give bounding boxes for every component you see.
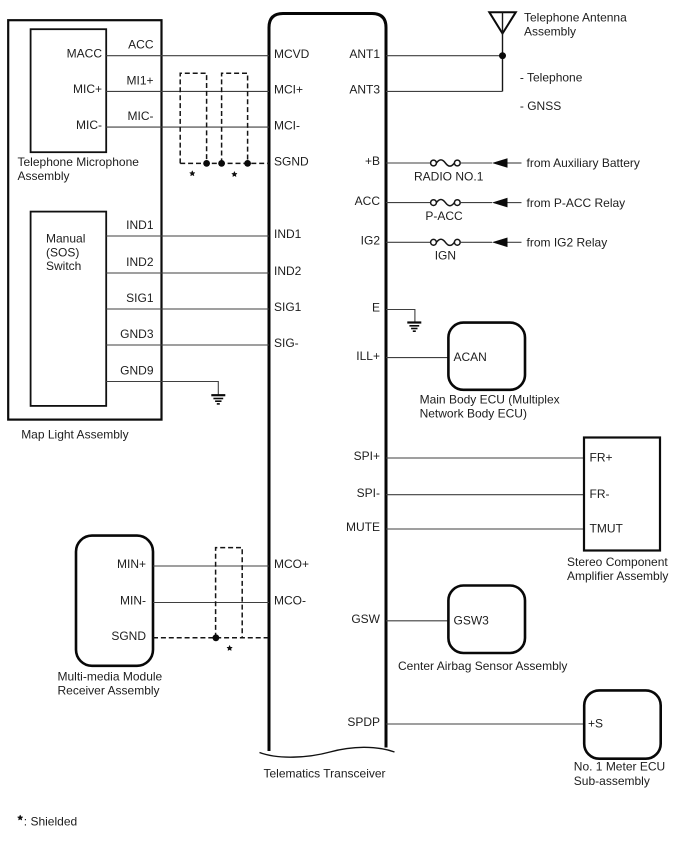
wire IND2 (106, 272, 269, 274)
svg-text:GSW3: GSW3 (454, 613, 490, 627)
svg-text:ACC: ACC (355, 194, 381, 208)
svg-text:Multi-media Module: Multi-media Module (58, 670, 163, 684)
svg-text:Center Airbag Sensor Assembly: Center Airbag Sensor Assembly (398, 659, 567, 673)
svg-text:Manual: Manual (46, 232, 85, 246)
ground E (407, 323, 421, 332)
svg-text:IG2: IG2 (361, 234, 381, 248)
ground GND9 (211, 395, 225, 404)
note *: Shielded (18, 815, 77, 829)
wire ACC (MACC to MCVD) (106, 55, 269, 57)
svg-text:SIG1: SIG1 (274, 300, 302, 314)
wire SPI- (386, 494, 584, 496)
wire ACC (386, 202, 431, 204)
wire MIN- to MCO- (153, 602, 269, 604)
wire GND3 (to SIG-) (106, 344, 269, 346)
svg-text:MIC-: MIC- (76, 118, 102, 132)
svg-text:SPDP: SPDP (347, 715, 380, 729)
wire arrow tail (+B) (508, 162, 522, 164)
svg-text:SIG-: SIG- (274, 336, 299, 350)
svg-text:Telephone Microphone: Telephone Microphone (18, 155, 140, 169)
wire arrow tail (IG2) (508, 241, 522, 243)
shield box S3 around MCO wires (216, 548, 243, 638)
svg-text:RADIO NO.1: RADIO NO.1 (414, 169, 484, 183)
svg-text:Map Light Assembly: Map Light Assembly (21, 428, 128, 442)
box Stereo Component Amplifier Assembly (584, 438, 660, 551)
wire E to ground (386, 310, 415, 323)
wire IND1 (106, 235, 269, 237)
arrow from P-ACC Relay (492, 198, 508, 208)
label Stereo Component Amplifier Assembly (567, 555, 668, 583)
wire MUTE (386, 528, 584, 530)
svg-text:from Auxiliary Battery: from Auxiliary Battery (527, 156, 640, 170)
svg-text:ANT1: ANT1 (349, 47, 380, 61)
svg-text:IND2: IND2 (126, 255, 154, 269)
box Manual (SOS) Switch (31, 212, 107, 406)
wire MI1+ (MIC+ to MCI+) (106, 90, 269, 92)
svg-text:- Telephone: - Telephone (520, 70, 583, 84)
svg-text:ILL+: ILL+ (356, 349, 380, 363)
svg-text:MIN+: MIN+ (117, 557, 146, 571)
svg-text:Receiver Assembly: Receiver Assembly (58, 683, 160, 697)
label Multi-media Module Receiver Assembly (58, 670, 163, 698)
svg-text:Main Body ECU (Multiplex: Main Body ECU (Multiplex (420, 393, 560, 407)
svg-text:Sub-assembly: Sub-assembly (574, 774, 650, 788)
box Main Body ECU (ACAN) (448, 323, 525, 390)
fuse RADIO NO.1 (431, 160, 461, 166)
svg-text:MI1+: MI1+ (126, 73, 153, 87)
shield box S2 around MI1+/MIC- wires (222, 73, 248, 163)
asterisk shield S2 (232, 172, 237, 177)
wire SGND shield drain (dashed) (180, 162, 269, 164)
svg-text:GND3: GND3 (120, 327, 154, 341)
svg-text:Telematics Transceiver: Telematics Transceiver (264, 767, 386, 781)
wire ANT1 (386, 55, 503, 57)
svg-text:IND2: IND2 (274, 264, 302, 278)
wire ILL+ to ACAN (386, 357, 448, 359)
svg-text:+B: +B (365, 154, 380, 168)
svg-text:from P-ACC Relay: from P-ACC Relay (527, 196, 626, 210)
connector U1 Telematics Transceiver outline (269, 14, 386, 752)
svg-text:MACC: MACC (67, 47, 103, 61)
svg-text:Stereo Component: Stereo Component (567, 555, 668, 569)
junction dot ANT1/antenna (499, 52, 506, 59)
wavy break line at U1 bottom (260, 747, 395, 757)
wire +B (386, 162, 431, 164)
wire fuse to arrow (ACC) (460, 202, 492, 204)
svg-text:Assembly: Assembly (524, 24, 576, 38)
box Multi-media Module Receiver Assembly (76, 536, 153, 666)
svg-text:MCO+: MCO+ (274, 557, 309, 571)
svg-text:IGN: IGN (435, 249, 456, 263)
box Telephone Microphone Assembly (31, 29, 107, 152)
svg-text:Telephone Antenna: Telephone Antenna (524, 11, 627, 25)
svg-text:SPI-: SPI- (357, 486, 380, 500)
svg-text:SGND: SGND (111, 629, 146, 643)
svg-text:IND1: IND1 (274, 227, 302, 241)
fuse IGN (431, 239, 461, 245)
svg-text:MCI+: MCI+ (274, 83, 303, 97)
svg-text:ACC: ACC (128, 37, 154, 51)
svg-text:GSW: GSW (351, 612, 380, 626)
fuse P-ACC (431, 200, 461, 206)
svg-text:MCI-: MCI- (274, 118, 300, 132)
svg-text:SPI+: SPI+ (354, 449, 380, 463)
wire SPDP to +S (386, 723, 584, 725)
arrow from IG2 Relay (492, 238, 508, 248)
svg-text:(SOS): (SOS) (46, 245, 79, 259)
svg-text:+S: +S (588, 716, 603, 730)
label Manual (SOS) Switch (46, 232, 85, 274)
wire arrow tail (ACC) (508, 202, 522, 204)
junction dot shield S2 right (244, 160, 251, 167)
wire SGND2 shield drain (dashed) (153, 637, 269, 639)
svg-text:ACAN: ACAN (454, 350, 487, 364)
wire ANT3 (386, 90, 503, 92)
box Center Airbag Sensor (GSW3) (448, 586, 525, 654)
svg-text:MIC-: MIC- (128, 109, 154, 123)
svg-text:MIC+: MIC+ (73, 82, 102, 96)
junction dot shield S2 left (218, 160, 225, 167)
svg-text:MCO-: MCO- (274, 594, 306, 608)
junction dot shield S3 (213, 634, 220, 641)
wire SIG1 (106, 308, 269, 310)
antenna Telephone Antenna Assembly (489, 12, 516, 91)
svg-text:MCVD: MCVD (274, 47, 310, 61)
wire fuse to arrow (IG2) (460, 241, 492, 243)
svg-text:E: E (372, 301, 380, 315)
svg-text:MIN-: MIN- (120, 594, 146, 608)
arrow from Auxiliary Battery (492, 158, 508, 168)
label Telephone Antenna Assembly (524, 11, 627, 39)
svg-text:MUTE: MUTE (346, 520, 380, 534)
box No. 1 Meter ECU (+S) (584, 690, 661, 758)
svg-text:FR-: FR- (590, 487, 610, 501)
svg-text:GND9: GND9 (120, 364, 154, 378)
svg-text:Switch: Switch (46, 259, 81, 273)
svg-text:: Shielded: : Shielded (24, 815, 77, 829)
shield box S1 around MI1+/MIC- wires (180, 73, 206, 163)
wire SPI+ (386, 457, 584, 459)
wire IG2 (386, 241, 431, 243)
wire GSW to GSW3 (386, 620, 448, 622)
asterisk shield S1 (190, 171, 195, 176)
svg-text:No. 1 Meter ECU: No. 1 Meter ECU (574, 760, 665, 774)
wire fuse to arrow (+B) (460, 162, 492, 164)
junction dot shield S1 (203, 160, 210, 167)
svg-text:Assembly: Assembly (18, 169, 70, 183)
svg-text:FR+: FR+ (590, 450, 613, 464)
label Main Body ECU (Multiplex Network Body ECU) (420, 393, 560, 421)
svg-text:SIG1: SIG1 (126, 291, 154, 305)
svg-text:Network Body ECU): Network Body ECU) (420, 407, 527, 421)
svg-text:- GNSS: - GNSS (520, 99, 561, 113)
svg-text:SGND: SGND (274, 155, 309, 169)
svg-text:IND1: IND1 (126, 218, 154, 232)
svg-text:TMUT: TMUT (590, 521, 624, 535)
svg-text:ANT3: ANT3 (349, 83, 380, 97)
box Map Light Assembly (8, 20, 161, 419)
label Telephone Microphone Assembly (18, 155, 140, 183)
label No. 1 Meter ECU Sub-assembly (574, 760, 665, 788)
svg-text:from IG2 Relay: from IG2 Relay (527, 236, 608, 250)
wire MIN+ to MCO+ (153, 565, 269, 567)
wire MIC- (MIC- to MCI-) (106, 126, 269, 128)
asterisk shield S3 (227, 646, 232, 651)
svg-text:Amplifier Assembly: Amplifier Assembly (567, 569, 668, 583)
svg-text:P-ACC: P-ACC (425, 209, 463, 223)
wire GND9 (106, 382, 218, 396)
